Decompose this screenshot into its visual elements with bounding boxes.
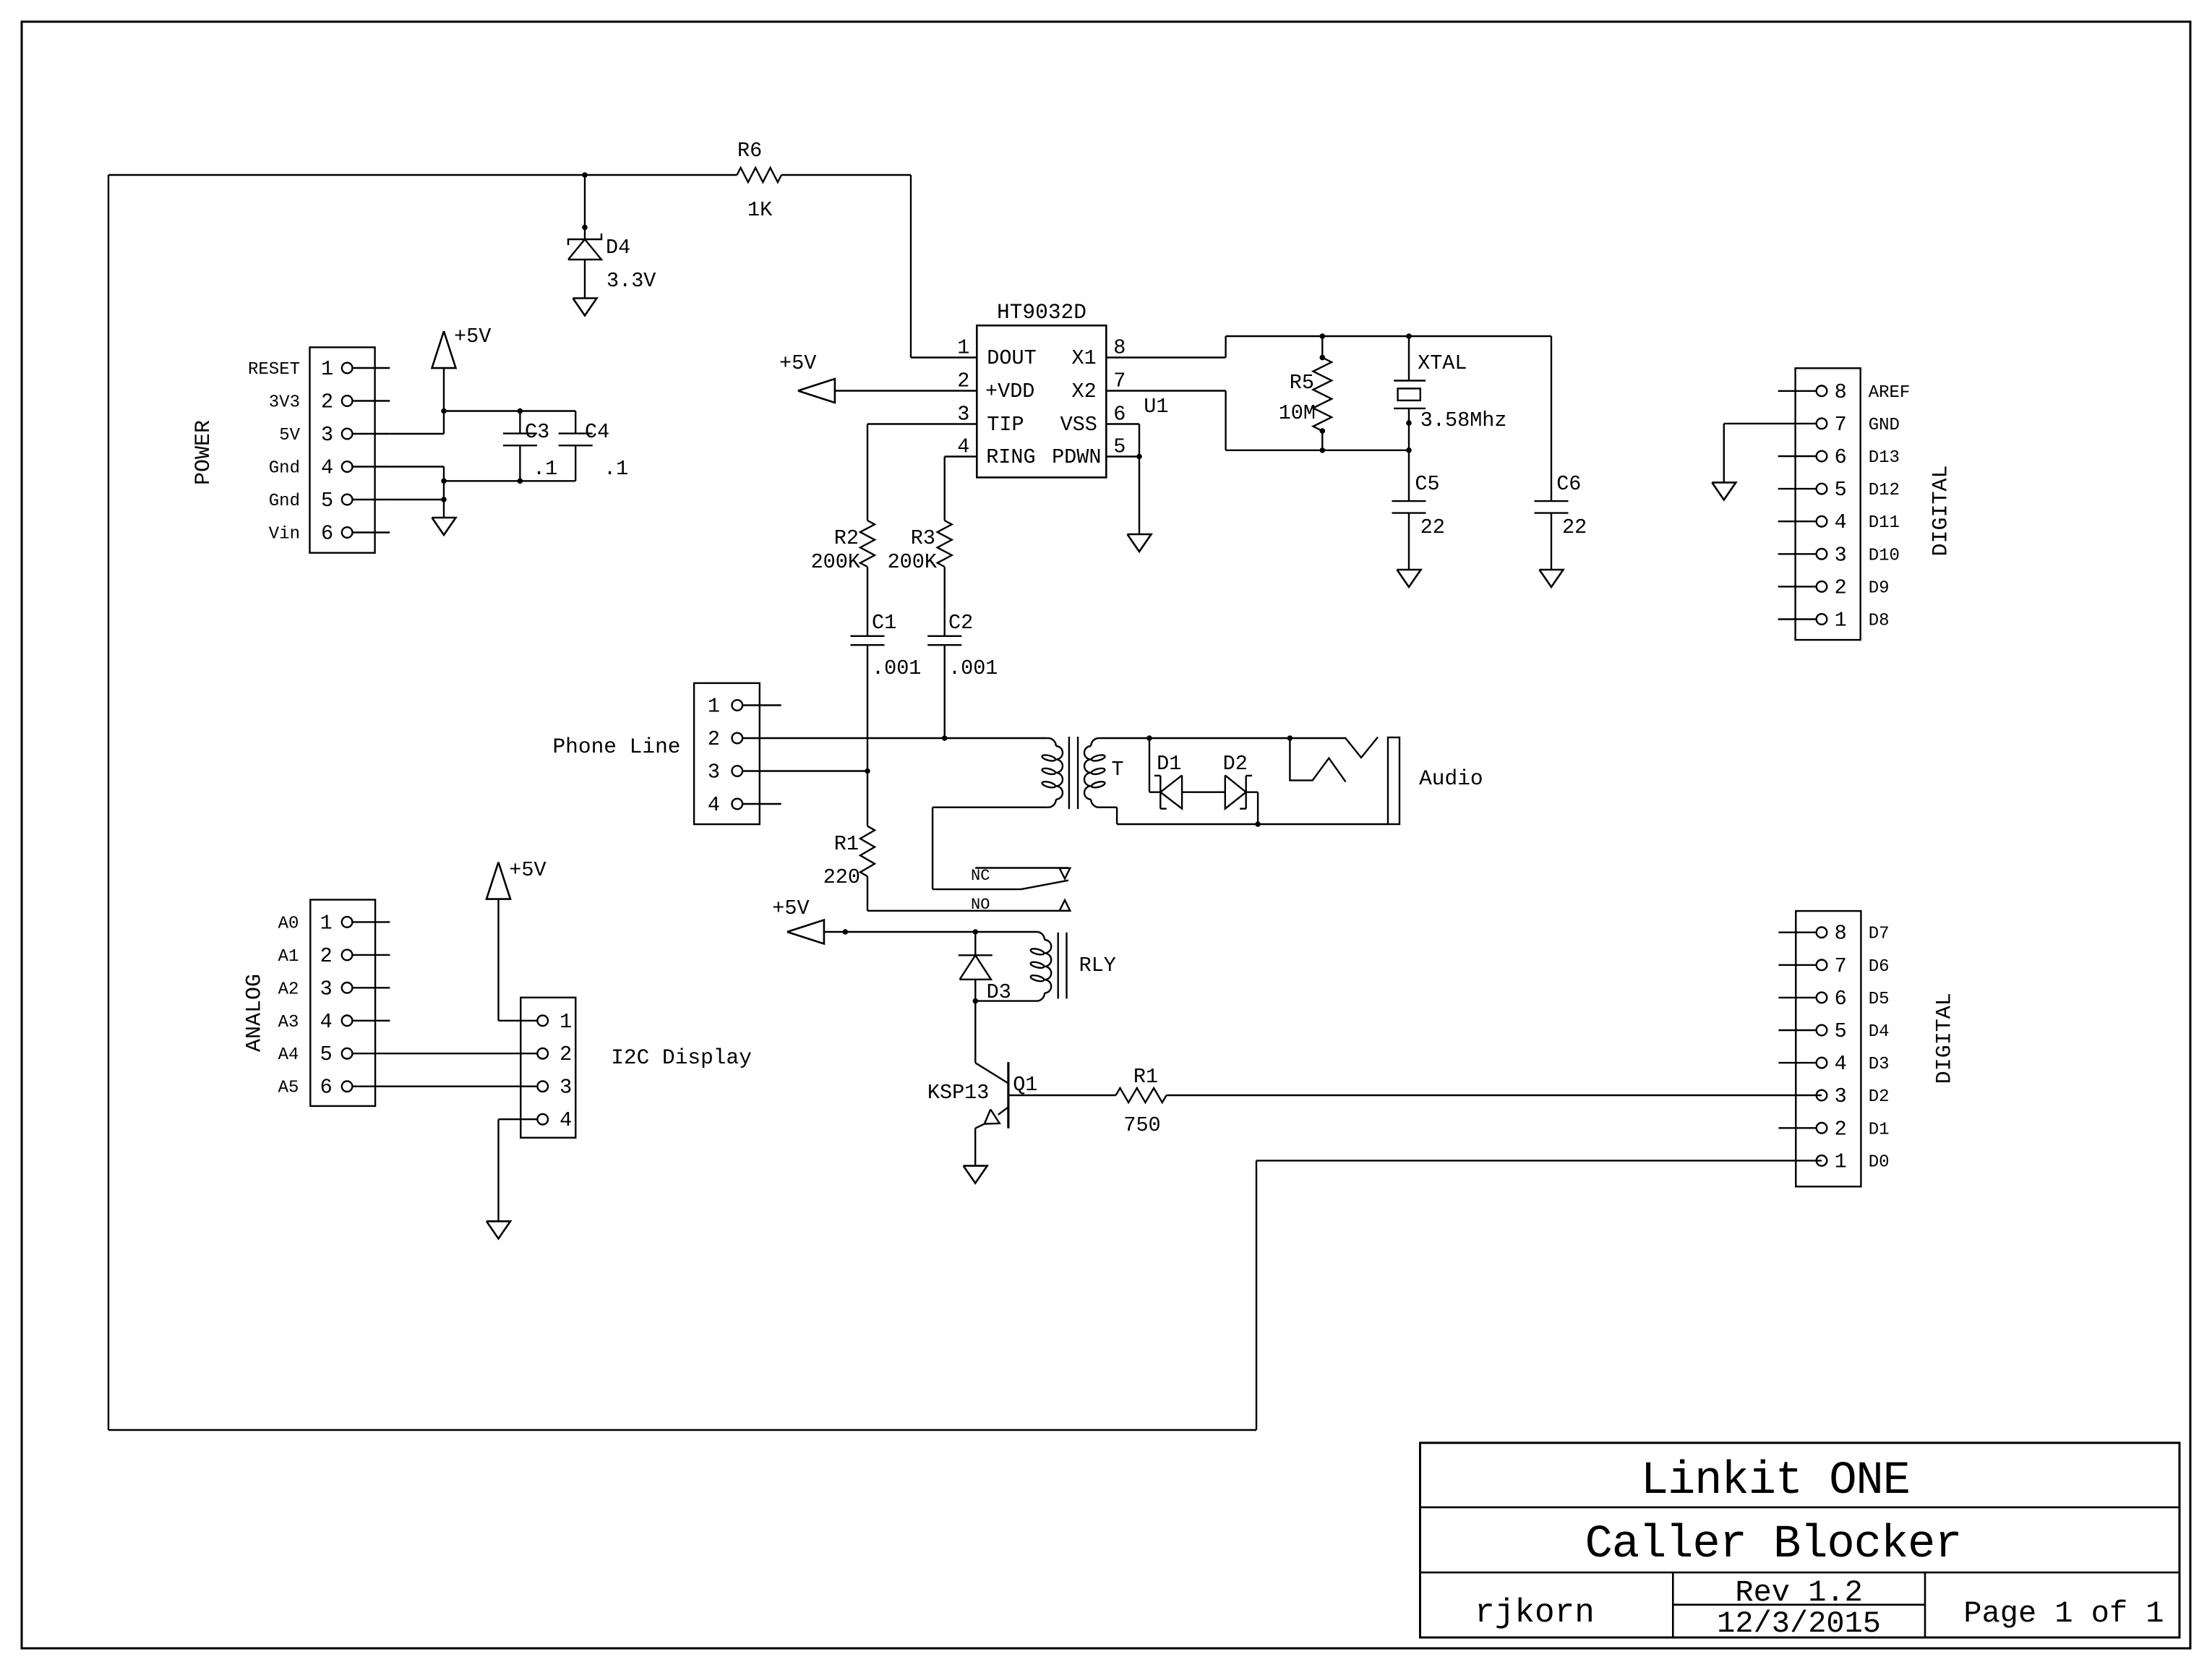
svg-text:A3: A3 — [278, 1013, 299, 1032]
svg-text:8: 8 — [1835, 922, 1847, 946]
svg-text:2: 2 — [708, 727, 720, 751]
svg-text:2: 2 — [320, 944, 333, 968]
svg-text:3: 3 — [321, 423, 333, 447]
svg-text:RESET: RESET — [248, 360, 300, 380]
svg-text:4: 4 — [1835, 510, 1847, 534]
svg-text:Vin: Vin — [269, 525, 300, 544]
svg-text:D12: D12 — [1869, 481, 1900, 500]
svg-text:6: 6 — [1835, 987, 1847, 1011]
svg-text:5: 5 — [1835, 1019, 1847, 1043]
svg-text:+5V: +5V — [779, 351, 816, 375]
svg-text:D9: D9 — [1869, 578, 1890, 598]
svg-text:DOUT: DOUT — [987, 346, 1036, 370]
svg-text:3: 3 — [1835, 1084, 1847, 1108]
svg-text:Q1: Q1 — [1013, 1073, 1037, 1097]
svg-text:A4: A4 — [278, 1045, 299, 1065]
svg-text:C4: C4 — [585, 420, 609, 444]
svg-text:R3: R3 — [911, 526, 935, 550]
svg-text:1: 1 — [320, 911, 333, 935]
svg-text:R6: R6 — [737, 139, 762, 163]
svg-text:1: 1 — [321, 357, 333, 381]
svg-text:D0: D0 — [1869, 1152, 1890, 1172]
svg-text:D1: D1 — [1869, 1120, 1890, 1139]
svg-text:.001: .001 — [872, 656, 921, 680]
svg-text:R1: R1 — [1133, 1065, 1158, 1089]
svg-text:U1: U1 — [1144, 395, 1168, 419]
svg-text:2: 2 — [1835, 1117, 1847, 1141]
svg-text:5: 5 — [321, 489, 333, 513]
svg-text:D2: D2 — [1223, 752, 1248, 776]
svg-text:3V3: 3V3 — [269, 393, 300, 413]
svg-text:D6: D6 — [1869, 957, 1890, 977]
svg-text:D8: D8 — [1869, 612, 1890, 631]
svg-text:Gnd: Gnd — [269, 492, 300, 511]
svg-text:C3: C3 — [525, 420, 549, 444]
svg-text:7: 7 — [1113, 369, 1126, 393]
svg-text:A1: A1 — [278, 947, 299, 967]
svg-text:22: 22 — [1420, 515, 1445, 539]
svg-text:rjkorn: rjkorn — [1475, 1594, 1595, 1632]
svg-text:C1: C1 — [872, 611, 896, 635]
svg-text:KSP13: KSP13 — [927, 1081, 990, 1105]
svg-text:1K: 1K — [747, 198, 773, 222]
svg-text:1: 1 — [1835, 609, 1847, 633]
svg-text:A2: A2 — [278, 980, 299, 999]
svg-text:22: 22 — [1562, 515, 1587, 539]
svg-text:.1: .1 — [604, 457, 628, 481]
svg-text:3.58Mhz: 3.58Mhz — [1420, 408, 1507, 432]
svg-text:4: 4 — [320, 1010, 333, 1034]
svg-text:2: 2 — [321, 390, 333, 414]
svg-text:5: 5 — [320, 1042, 333, 1066]
svg-text:200K: 200K — [888, 550, 938, 574]
svg-text:8: 8 — [1835, 380, 1847, 404]
svg-text:2: 2 — [957, 369, 969, 393]
svg-text:3.3V: 3.3V — [606, 269, 656, 293]
svg-text:4: 4 — [560, 1108, 572, 1132]
svg-text:D2: D2 — [1869, 1087, 1890, 1107]
svg-text:Audio: Audio — [1419, 766, 1483, 791]
svg-text:3: 3 — [560, 1076, 572, 1100]
svg-text:Gnd: Gnd — [269, 459, 300, 479]
svg-text:D1: D1 — [1157, 752, 1181, 776]
svg-text:750: 750 — [1123, 1113, 1160, 1137]
svg-text:ANALOG: ANALOG — [243, 974, 267, 1052]
svg-text:2: 2 — [1835, 575, 1847, 599]
svg-text:220: 220 — [823, 865, 860, 889]
svg-text:4: 4 — [321, 456, 333, 480]
svg-text:+5V: +5V — [509, 858, 546, 882]
svg-text:R1: R1 — [834, 832, 859, 856]
svg-text:D11: D11 — [1869, 513, 1900, 533]
svg-text:C2: C2 — [948, 611, 973, 635]
svg-text:D7: D7 — [1869, 925, 1890, 944]
svg-text:5V: 5V — [279, 426, 300, 445]
svg-text:6: 6 — [321, 522, 333, 546]
svg-text:D3: D3 — [1869, 1055, 1890, 1074]
svg-text:TIP: TIP — [987, 413, 1024, 437]
svg-text:1: 1 — [708, 695, 720, 719]
svg-text:+5V: +5V — [454, 325, 491, 348]
svg-text:6: 6 — [1113, 403, 1126, 427]
svg-text:6: 6 — [1835, 445, 1847, 469]
svg-text:1: 1 — [957, 336, 969, 360]
svg-text:R2: R2 — [834, 526, 859, 550]
svg-text:7: 7 — [1835, 413, 1847, 437]
svg-text:1: 1 — [560, 1010, 572, 1034]
svg-text:6: 6 — [320, 1076, 333, 1100]
svg-text:R5: R5 — [1290, 371, 1314, 395]
svg-text:X2: X2 — [1071, 380, 1096, 403]
svg-text:XTAL: XTAL — [1418, 351, 1467, 375]
svg-text:T: T — [1111, 758, 1123, 782]
svg-text:4: 4 — [708, 793, 720, 817]
svg-text:DIGITAL: DIGITAL — [1929, 465, 1954, 556]
svg-text:A0: A0 — [278, 914, 299, 933]
svg-text:POWER: POWER — [192, 420, 216, 485]
svg-text:D4: D4 — [1869, 1022, 1890, 1042]
svg-text:10M: 10M — [1279, 401, 1316, 425]
svg-text:NO: NO — [971, 896, 990, 914]
svg-text:Rev 1.2: Rev 1.2 — [1735, 1575, 1862, 1610]
svg-text:.001: .001 — [948, 656, 998, 680]
svg-text:D10: D10 — [1869, 546, 1900, 565]
svg-text:X1: X1 — [1071, 346, 1096, 370]
svg-text:Linkit ONE: Linkit ONE — [1641, 1455, 1910, 1507]
svg-text:4: 4 — [957, 435, 969, 459]
svg-text:4: 4 — [1835, 1052, 1847, 1076]
svg-text:2: 2 — [560, 1042, 572, 1066]
svg-text:+VDD: +VDD — [985, 380, 1034, 403]
svg-text:RING: RING — [986, 445, 1035, 469]
svg-text:C5: C5 — [1415, 472, 1439, 496]
svg-text:7: 7 — [1835, 954, 1847, 978]
svg-text:Page 1 of 1: Page 1 of 1 — [1963, 1596, 2164, 1631]
svg-text:RLY: RLY — [1079, 954, 1116, 977]
svg-text:D5: D5 — [1869, 990, 1890, 1009]
svg-text:3: 3 — [320, 977, 333, 1001]
svg-text:200K: 200K — [811, 550, 861, 574]
svg-text:HT9032D: HT9032D — [997, 300, 1086, 325]
svg-text:1: 1 — [1835, 1149, 1847, 1173]
svg-text:AREF: AREF — [1869, 383, 1911, 403]
svg-text:DIGITAL: DIGITAL — [1933, 993, 1958, 1084]
svg-text:A5: A5 — [278, 1079, 299, 1098]
svg-text:5: 5 — [1835, 478, 1847, 502]
svg-text:D4: D4 — [606, 236, 630, 260]
svg-text:NC: NC — [971, 867, 990, 885]
svg-text:.1: .1 — [533, 457, 557, 481]
svg-text:D13: D13 — [1869, 448, 1900, 468]
svg-text:GND: GND — [1869, 416, 1900, 435]
svg-text:3: 3 — [957, 403, 969, 427]
svg-text:+5V: +5V — [772, 896, 809, 920]
svg-text:Phone Line: Phone Line — [552, 735, 680, 759]
svg-text:8: 8 — [1113, 336, 1126, 360]
svg-text:I2C Display: I2C Display — [611, 1045, 752, 1070]
svg-text:3: 3 — [708, 761, 720, 784]
svg-text:Caller Blocker: Caller Blocker — [1585, 1519, 1962, 1571]
svg-text:5: 5 — [1113, 435, 1126, 459]
svg-text:3: 3 — [1835, 543, 1847, 567]
svg-text:C6: C6 — [1556, 472, 1581, 496]
svg-text:VSS: VSS — [1060, 413, 1097, 437]
svg-text:PDWN: PDWN — [1052, 445, 1101, 469]
svg-text:12/3/2015: 12/3/2015 — [1717, 1606, 1881, 1641]
